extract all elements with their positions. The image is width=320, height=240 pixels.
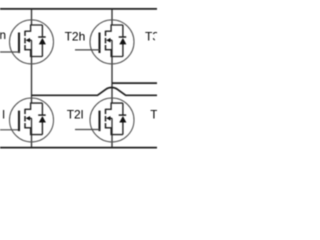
- gate lead stub T2h: [75, 49, 100, 51]
- svg-text:T: T: [150, 107, 157, 121]
- gate lead T1l: [0, 129, 20, 131]
- body lead: [29, 39, 31, 41]
- gate lead T1h: [0, 51, 20, 53]
- source internal bus: [25, 50, 42, 57]
- mosfet circle: [10, 20, 54, 64]
- wire left column: T1h body/source down to T1l drain bus: [31, 40, 33, 103]
- diode cathode lead: [41, 25, 43, 36]
- channel dash bottom: [24, 45, 26, 50]
- wire top DC rail: [0, 8, 157, 10]
- transistor T1h (top-left MOSFET with body diode): [10, 20, 54, 64]
- white overlay simulating scan cut of the 3: [155, 34, 157, 42]
- channel dash middle: [24, 38, 26, 44]
- wire right column: T2h body/source down to T2l drain bus: [111, 40, 113, 103]
- drain internal bus: [25, 25, 42, 31]
- wire right column: rail to T2h drain: [111, 9, 113, 25]
- wire right column: T2l body/source to bottom rail: [111, 118, 113, 147]
- transistor T2l (bottom-right MOSFET with body diode): [90, 98, 134, 142]
- body arrow head: [26, 38, 30, 43]
- gate lead stub T2l: [75, 129, 100, 131]
- diode cathode bar: [38, 36, 46, 38]
- wire left leg midpoint output with hop over right column: [32, 88, 158, 96]
- diode anode lead: [41, 44, 43, 57]
- svg-text:T2l: T2l: [67, 108, 84, 122]
- wire left column: T1l body/source to bottom rail: [31, 118, 33, 147]
- diode triangle: [39, 38, 46, 45]
- svg-text:T2h: T2h: [65, 29, 86, 43]
- wire left column: rail to T1h drain: [31, 9, 33, 25]
- transistor T2h (top-right MOSFET with body diode): [90, 20, 134, 64]
- svg-text:l: l: [2, 107, 5, 121]
- wire right leg midpoint output: [112, 82, 157, 84]
- white overlay simulating faded ascender in scan: [0, 29, 2, 32]
- wire bottom DC rail: [0, 147, 157, 149]
- gate bar: [18, 33, 20, 54]
- transistor T1l (bottom-left MOSFET with body diode): [10, 98, 54, 142]
- channel dash top: [24, 31, 26, 36]
